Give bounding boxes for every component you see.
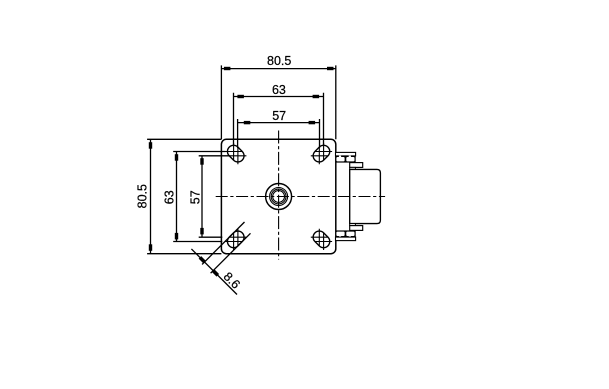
dim 80.5 top: extension lines: [221, 65, 335, 139]
cross BL 57-position: [229, 229, 246, 246]
dim 80.5 left: extension lines: [147, 139, 221, 253]
svg-text:63: 63: [272, 83, 286, 97]
top step block: [350, 163, 363, 168]
dim 57 top: extension lines: [238, 119, 320, 148]
top fastener tab left: [339, 156, 341, 158]
arrow 8.6 upper (outside, pointing to tip at 204.5,262): [199, 256, 206, 263]
arrow 8.6 lower (outside, pointing to tip at 213.2,270.7): [212, 269, 219, 276]
svg-text:57: 57: [189, 190, 203, 204]
cross TR 63-position: [315, 143, 332, 160]
slot hole bottom-right: [311, 229, 333, 251]
bottom mounting strip: [336, 237, 356, 241]
bottom fastener white cell left: [336, 232, 344, 236]
slot hole bottom-left: [225, 229, 247, 251]
arrows 57 left: [200, 158, 203, 165]
arrows 57 top: [244, 121, 251, 124]
svg-text:57: 57: [272, 109, 286, 123]
svg-text:63: 63: [163, 190, 177, 204]
top fastener white cell right: [346, 157, 354, 161]
arrows 63 top: [237, 95, 244, 98]
svg-text:80.5: 80.5: [267, 54, 291, 68]
arrows 63 left: [175, 154, 178, 161]
dim 80.5 left: dimension line: [150, 139, 152, 253]
horizontal centerline: [216, 196, 385, 198]
bottom fastener box: [336, 230, 356, 237]
bottom small tab: [350, 224, 356, 226]
cross TL 57-position: [229, 147, 246, 164]
dim 57 left: extension lines: [199, 156, 230, 237]
cross BR 63-position: [315, 233, 332, 250]
top fastener white cell left: [336, 157, 344, 161]
dimension arrows (box style): [149, 67, 334, 277]
cross TL 63-position: [225, 143, 242, 160]
bottom fastener white cell right: [346, 232, 354, 236]
swivel body: [350, 169, 381, 223]
dim 57 left: dimension line: [201, 156, 203, 237]
svg-text:80.5: 80.5: [135, 184, 149, 208]
dim 80.5 top: dimension line: [221, 68, 335, 70]
arrows 80.5 left: [149, 142, 152, 149]
top mounting strip: [336, 152, 356, 156]
slot center cross marks: [225, 143, 332, 250]
dimension texts: [135, 54, 291, 291]
vertical centerline: [278, 131, 280, 260]
bottom fastener tab right: [349, 236, 351, 238]
dim 63 left: dimension line: [176, 152, 178, 242]
plate outline (top view, rounded square): [221, 139, 335, 253]
slot hole top-left: [225, 143, 247, 165]
arrows 80.5 top: [224, 67, 231, 70]
dim 63 top: dimension line: [234, 96, 324, 98]
dim 57 top: dimension line: [238, 122, 320, 124]
dim 8.6: dimension line: [191, 249, 237, 295]
cross BR 57-position: [311, 229, 328, 246]
center hole (threaded): [266, 184, 292, 210]
dim 63 left: extension lines: [173, 152, 225, 242]
top small tab: [350, 167, 356, 169]
cross TR 57-position: [311, 147, 328, 164]
dim 8.6: extension line B: [211, 233, 251, 273]
top fastener tab right: [349, 156, 351, 158]
top fastener box: [336, 156, 356, 163]
bottom fastener tab left: [339, 236, 341, 238]
dim 63 top: extension lines: [234, 93, 324, 146]
bottom step block: [350, 226, 363, 231]
dim 8.6: extension line A: [202, 222, 244, 264]
slot hole top-right: [311, 143, 333, 165]
cross BL 63-position: [225, 233, 242, 250]
